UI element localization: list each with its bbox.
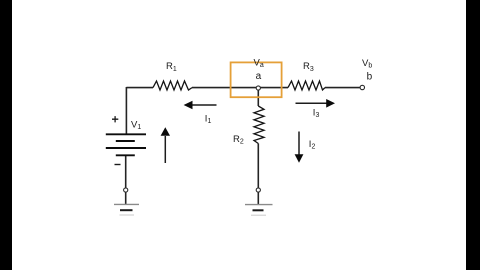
svg-text:V1: V1 xyxy=(131,119,141,131)
svg-text:I2: I2 xyxy=(309,139,316,151)
svg-text:I1: I1 xyxy=(205,114,212,126)
svg-text:Va: Va xyxy=(254,57,264,69)
svg-text:I3: I3 xyxy=(313,107,320,119)
svg-text:a: a xyxy=(256,71,262,82)
svg-text:R3: R3 xyxy=(303,61,314,73)
svg-text:R2: R2 xyxy=(233,134,244,146)
svg-text:b: b xyxy=(367,71,373,82)
svg-text:Vb: Vb xyxy=(362,58,372,70)
svg-text:R1: R1 xyxy=(166,61,177,73)
